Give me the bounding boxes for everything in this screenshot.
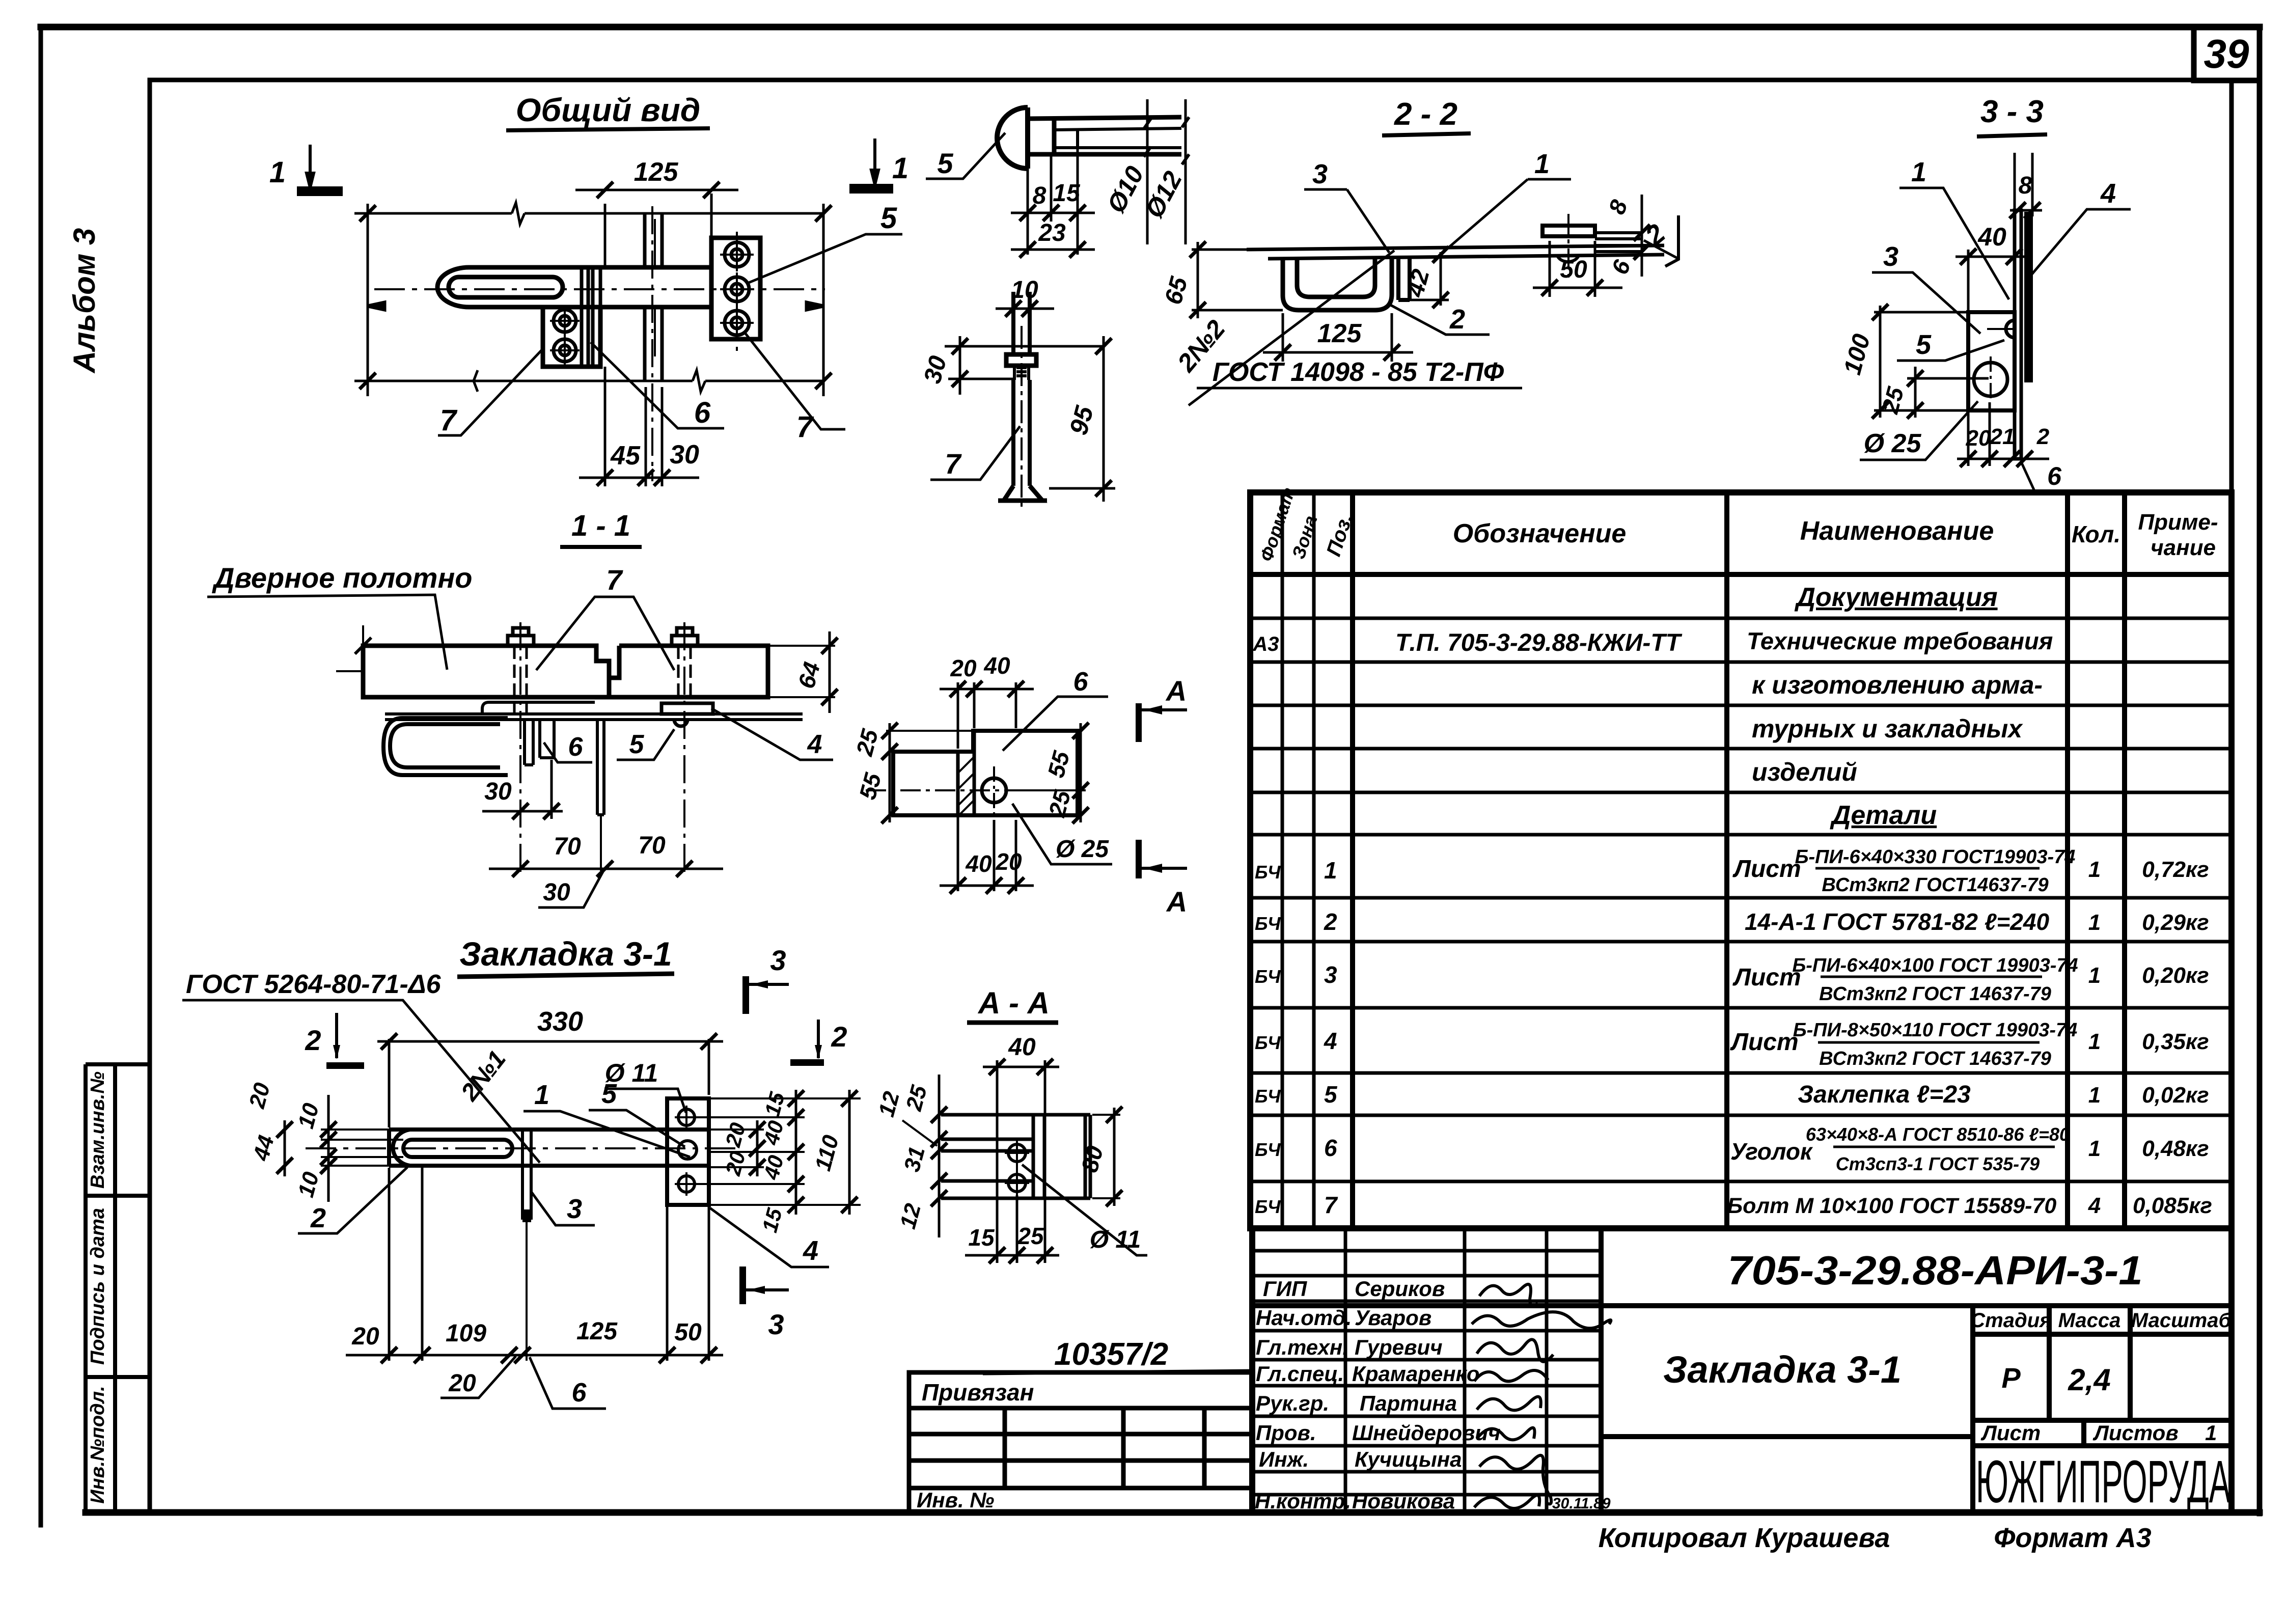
svg-text:Гл.техн.: Гл.техн. xyxy=(1256,1335,1348,1359)
angle outline xyxy=(893,731,1078,815)
svg-text:Детали: Детали xyxy=(1830,801,1937,830)
svg-text:2: 2 xyxy=(310,1203,326,1233)
svg-text:20: 20 xyxy=(1966,426,1991,451)
svg-text:7: 7 xyxy=(440,404,458,437)
svg-text:40: 40 xyxy=(1008,1034,1036,1061)
leader 7 left xyxy=(438,349,543,435)
label d11 xyxy=(604,1089,686,1113)
svg-text:63×40×8-А ГОСТ 8510-86 ℓ=80: 63×40×8-А ГОСТ 8510-86 ℓ=80 xyxy=(1806,1124,2070,1145)
svg-text:40: 40 xyxy=(1977,223,2006,251)
svg-text:6: 6 xyxy=(1073,667,1089,697)
angle leg cut xyxy=(956,752,960,815)
label 4 xyxy=(710,1208,829,1267)
dim 50 washer xyxy=(1533,241,1622,297)
svg-text:5: 5 xyxy=(601,1079,617,1109)
svg-text:10: 10 xyxy=(1011,277,1038,304)
rivet head item 5 xyxy=(2006,320,2015,338)
main bar (item 1) xyxy=(584,267,711,307)
svg-text:А - А: А - А xyxy=(977,986,1050,1020)
rivet head bump xyxy=(674,720,687,726)
section mark 3 top xyxy=(742,976,749,1014)
svg-text:2: 2 xyxy=(1449,304,1465,335)
svg-text:Обозначение: Обозначение xyxy=(1453,519,1627,548)
label 6 xyxy=(544,742,592,762)
label 1 xyxy=(1899,188,2009,299)
svg-text:3: 3 xyxy=(768,1308,784,1340)
svg-text:Сериков: Сериков xyxy=(1355,1277,1445,1301)
svg-text:Общий вид: Общий вид xyxy=(516,92,701,128)
svg-text:Технические требования: Технические требования xyxy=(1747,627,2053,654)
section arrow A lower xyxy=(1136,840,1142,878)
svg-text:Крамаренко: Крамаренко xyxy=(1352,1362,1480,1386)
svg-text:15: 15 xyxy=(968,1224,995,1251)
dim d10 xyxy=(1144,99,1151,244)
section arrow A upper xyxy=(1136,703,1142,742)
svg-text:3: 3 xyxy=(567,1194,582,1224)
dim 65 xyxy=(1190,241,1283,318)
dim 125 bottom xyxy=(1263,313,1413,362)
door frame centerline xyxy=(651,206,653,481)
svg-text:А3: А3 xyxy=(1252,633,1279,655)
bolt centerline xyxy=(1021,326,1023,509)
section mark 3 bottom xyxy=(739,1267,746,1304)
svg-text:2,4: 2,4 xyxy=(2068,1363,2110,1397)
leader 6 bottom xyxy=(2021,461,2076,492)
svg-text:БЧ: БЧ xyxy=(1255,913,1281,934)
svg-text:ВСт3кп2 ГОСТ 14637-79: ВСт3кп2 ГОСТ 14637-79 xyxy=(1819,1048,2051,1069)
bar centerline xyxy=(306,1147,736,1149)
left dims xyxy=(321,1130,403,1166)
svg-text:5: 5 xyxy=(937,147,953,179)
section mark 2 right xyxy=(817,1020,820,1058)
svg-text:Закладка 3-1: Закладка 3-1 xyxy=(1663,1348,1902,1391)
dim 23 xyxy=(1011,241,1095,258)
dim 30 lower leader xyxy=(538,870,604,907)
svg-text:125: 125 xyxy=(576,1318,618,1345)
dim 8 top xyxy=(2009,153,2042,218)
svg-text:2: 2 xyxy=(305,1024,321,1056)
svg-text:50: 50 xyxy=(1560,256,1587,283)
left leaf left end ext xyxy=(362,625,364,646)
svg-text:Ø 11: Ø 11 xyxy=(1090,1226,1141,1253)
svg-text:5: 5 xyxy=(629,730,645,759)
svg-text:Подпись и дата: Подпись и дата xyxy=(87,1208,108,1365)
label 7 with two leaders xyxy=(536,597,674,670)
plate 4 under right leaf xyxy=(662,703,713,714)
countersunk foot xyxy=(1004,486,1042,501)
svg-text:1: 1 xyxy=(1534,149,1550,179)
plate holes xyxy=(675,1106,698,1196)
svg-text:4: 4 xyxy=(1324,1028,1337,1054)
rivet on plate xyxy=(1543,226,1595,236)
svg-text:Взам.инв.№: Взам.инв.№ xyxy=(87,1071,108,1189)
svg-text:8: 8 xyxy=(1033,182,1046,209)
svg-text:14-А-1 ГОСТ 5781-82 ℓ=240: 14-А-1 ГОСТ 5781-82 ℓ=240 xyxy=(1745,909,2050,935)
strap item 3 xyxy=(1398,259,1410,300)
privyazan box xyxy=(909,1372,1252,1512)
svg-text:Лист: Лист xyxy=(1980,1421,2041,1445)
svg-text:БЧ: БЧ xyxy=(1255,1139,1281,1160)
angle edge view (item 6) xyxy=(582,267,600,367)
bolt top right plate xyxy=(720,238,754,271)
svg-text:39: 39 xyxy=(2204,31,2249,76)
dim 80 xyxy=(1092,1107,1122,1206)
svg-text:1: 1 xyxy=(2088,1029,2101,1054)
label 5 xyxy=(617,729,674,760)
svg-text:БЧ: БЧ xyxy=(1255,1196,1281,1217)
channel (rod loop side view) xyxy=(1283,259,1392,310)
svg-text:0,72кг: 0,72кг xyxy=(2142,857,2209,882)
svg-text:БЧ: БЧ xyxy=(1255,1086,1281,1107)
svg-text:2: 2 xyxy=(1324,909,1337,935)
label d25 xyxy=(1860,401,1978,460)
svg-text:Ст3сп3-1 ГОСТ 535-79: Ст3сп3-1 ГОСТ 535-79 xyxy=(1836,1153,2040,1174)
svg-text:Шнейдерович: Шнейдерович xyxy=(1352,1421,1501,1445)
centerline xyxy=(374,288,825,290)
left door leaf xyxy=(363,646,609,697)
bolt top-left plate xyxy=(550,306,580,336)
bottom dims xyxy=(346,1168,723,1363)
svg-text:7: 7 xyxy=(1324,1192,1338,1218)
svg-text:1: 1 xyxy=(2088,857,2101,882)
svg-text:БЧ: БЧ xyxy=(1255,862,1281,883)
svg-text:7: 7 xyxy=(945,448,962,480)
svg-text:Рук.гр.: Рук.гр. xyxy=(1256,1391,1329,1415)
20 lower leader xyxy=(440,1356,516,1398)
svg-text:Нач.отд.: Нач.отд. xyxy=(1256,1306,1352,1330)
svg-text:Б-ПИ-6×40×100 ГОСТ 19903-74: Б-ПИ-6×40×100 ГОСТ 19903-74 xyxy=(1792,955,2078,976)
svg-text:1: 1 xyxy=(2088,1083,2101,1108)
svg-text:Пров.: Пров. xyxy=(1256,1421,1316,1445)
door frame vertical xyxy=(645,213,662,381)
svg-text:20: 20 xyxy=(950,655,977,681)
svg-text:к изготовлению арма-: к изготовлению арма- xyxy=(1752,671,2043,699)
svg-text:21: 21 xyxy=(1990,424,2015,449)
right dims xyxy=(697,1098,861,1205)
svg-text:1: 1 xyxy=(2088,910,2101,935)
dim 8/6 right end xyxy=(1634,195,1650,277)
svg-text:70: 70 xyxy=(554,833,581,860)
svg-text:Листов: Листов xyxy=(2092,1421,2179,1445)
label d11 xyxy=(1022,1165,1147,1255)
hole xyxy=(982,778,1006,803)
label 6 xyxy=(1003,697,1108,751)
rivet shank xyxy=(1054,128,1181,148)
svg-text:5: 5 xyxy=(1324,1081,1338,1108)
svg-text:5: 5 xyxy=(880,202,897,235)
label 2 channel xyxy=(1388,304,1490,335)
svg-text:ГОСТ 14098 - 85 Т2-ПФ: ГОСТ 14098 - 85 Т2-ПФ xyxy=(1213,357,1504,387)
svg-text:30: 30 xyxy=(484,778,512,805)
label 2 xyxy=(298,1167,407,1233)
svg-text:20: 20 xyxy=(448,1370,476,1397)
svg-text:Инж.: Инж. xyxy=(1259,1447,1309,1471)
svg-text:0,20кг: 0,20кг xyxy=(2142,963,2209,988)
svg-text:1: 1 xyxy=(534,1080,549,1110)
bar end view item 1 xyxy=(2015,210,2021,459)
bottom dims 15 25 xyxy=(965,1195,1059,1263)
section mark 1 right xyxy=(851,139,892,192)
label 4 xyxy=(2030,209,2131,276)
svg-text:Масса: Масса xyxy=(2058,1309,2121,1332)
right plate (item 4) xyxy=(711,238,760,339)
bolt 2 shank dashed xyxy=(678,646,691,703)
svg-text:1: 1 xyxy=(2088,963,2101,988)
svg-text:40: 40 xyxy=(965,850,992,877)
svg-text:Партина: Партина xyxy=(1360,1391,1457,1415)
svg-text:7: 7 xyxy=(796,410,814,444)
svg-text:Б-ПИ-6×40×330 ГОСТ19903-74: Б-ПИ-6×40×330 ГОСТ19903-74 xyxy=(1795,846,2076,868)
svg-text:109: 109 xyxy=(446,1320,486,1347)
rivet collar xyxy=(1028,117,1181,154)
ticks on walls xyxy=(360,205,832,389)
top plate side view xyxy=(1247,245,1664,259)
page number box 39 xyxy=(2194,27,2260,80)
svg-text:Формат А3: Формат А3 xyxy=(1994,1523,2151,1553)
label 3 xyxy=(1872,272,1980,334)
svg-text:А: А xyxy=(1166,886,1187,918)
left plate (item 3) xyxy=(543,307,600,367)
svg-text:Стадия: Стадия xyxy=(1970,1309,2051,1332)
svg-text:0,02кг: 0,02кг xyxy=(2142,1083,2209,1108)
svg-text:6: 6 xyxy=(568,732,584,762)
svg-text:2: 2 xyxy=(831,1021,847,1053)
dim 40 xyxy=(1956,249,2024,312)
svg-text:Лист: Лист xyxy=(1732,856,1801,883)
svg-text:50: 50 xyxy=(674,1319,702,1346)
rod loop item 2 xyxy=(393,1130,512,1166)
svg-text:20: 20 xyxy=(351,1323,379,1350)
svg-text:6: 6 xyxy=(572,1378,587,1408)
bolt shaft top xyxy=(1013,292,1030,354)
section mark 2 right xyxy=(1665,215,1678,266)
rod loop below xyxy=(383,718,508,775)
svg-text:Кучицына: Кучицына xyxy=(1355,1447,1462,1471)
svg-text:1: 1 xyxy=(269,156,286,189)
svg-text:Б-ПИ-8×50×110 ГОСТ 19903-74: Б-ПИ-8×50×110 ГОСТ 19903-74 xyxy=(1793,1020,2078,1041)
left dims xyxy=(931,1075,947,1237)
svg-text:Документация: Документация xyxy=(1794,583,1997,612)
plate item 3 xyxy=(1968,312,2015,410)
dim 125 top xyxy=(575,182,738,268)
svg-text:10357/2: 10357/2 xyxy=(1054,1337,1168,1372)
label 1 xyxy=(1446,179,1528,250)
rivet middle (item 5) xyxy=(720,272,754,306)
svg-text:1 - 1: 1 - 1 xyxy=(571,509,630,542)
svg-text:0,29кг: 0,29кг xyxy=(2142,910,2209,935)
long plate edge xyxy=(385,714,803,720)
svg-text:Наименование: Наименование xyxy=(1800,516,1994,546)
label 3 xyxy=(1347,189,1389,253)
svg-text:А: А xyxy=(1165,675,1187,707)
svg-text:Приме-: Приме- xyxy=(2138,510,2218,535)
svg-text:30: 30 xyxy=(670,440,699,470)
svg-text:Инв.№подл.: Инв.№подл. xyxy=(87,1386,108,1503)
part outline xyxy=(941,1115,1090,1198)
label 3 xyxy=(531,1192,595,1225)
svg-text:ВСт3кп2 ГОСТ 14637-79: ВСт3кп2 ГОСТ 14637-79 xyxy=(1819,983,2051,1005)
svg-text:Ø 25: Ø 25 xyxy=(1056,836,1109,863)
weld designation xyxy=(1189,251,1394,405)
svg-text:Т.П. 705-3-29.88-КЖИ-ТТ: Т.П. 705-3-29.88-КЖИ-ТТ xyxy=(1395,629,1683,656)
left extension line xyxy=(367,204,369,396)
label 4 xyxy=(711,708,833,760)
label d25 xyxy=(1012,804,1112,864)
svg-text:Лист: Лист xyxy=(1730,1029,1799,1056)
hole d25 xyxy=(1974,363,2007,396)
svg-text:БЧ: БЧ xyxy=(1255,1032,1281,1053)
svg-text:Кол.: Кол. xyxy=(2072,521,2120,547)
svg-text:Альбом 3: Альбом 3 xyxy=(67,228,101,374)
svg-text:Уголок: Уголок xyxy=(1730,1138,1813,1165)
svg-text:Масштаб: Масштаб xyxy=(2131,1309,2232,1332)
svg-text:1: 1 xyxy=(2205,1421,2217,1445)
rod end lines right xyxy=(1595,233,1642,252)
bolt shaft bottom xyxy=(1013,380,1030,486)
leader 5 xyxy=(926,133,1005,179)
strap item 3 xyxy=(597,720,604,815)
bolt bottom-left plate xyxy=(550,336,580,365)
svg-text:Гл.спец.: Гл.спец. xyxy=(1256,1362,1344,1386)
dim 8 / 15 xyxy=(1011,148,1095,255)
svg-text:Ø 25: Ø 25 xyxy=(1864,429,1922,458)
svg-text:Закладка 3-1: Закладка 3-1 xyxy=(459,935,672,973)
label 1 xyxy=(524,1111,690,1157)
leader 7 right xyxy=(743,331,845,429)
wall bottom edge xyxy=(354,370,823,392)
right door leaf xyxy=(609,646,768,697)
bar left end under leaf xyxy=(482,702,595,714)
svg-text:6: 6 xyxy=(2047,462,2062,490)
dim 95 right xyxy=(1049,336,1115,502)
svg-text:Р: Р xyxy=(2001,1362,2021,1394)
hatch xyxy=(959,758,973,815)
label 5 xyxy=(1897,340,2004,361)
dim 100 xyxy=(1872,304,1967,419)
svg-text:23: 23 xyxy=(1038,219,1066,246)
svg-text:125: 125 xyxy=(1317,319,1362,348)
section mark 1 left xyxy=(298,145,341,195)
svg-text:25: 25 xyxy=(1017,1223,1044,1249)
dim 25 xyxy=(1907,367,1989,419)
svg-text:4: 4 xyxy=(2100,178,2116,209)
svg-text:705-3-29.88-АРИ-3-1: 705-3-29.88-АРИ-3-1 xyxy=(1728,1248,2143,1293)
svg-text:5: 5 xyxy=(1916,329,1932,360)
bolt 1 head xyxy=(508,636,534,646)
svg-text:1: 1 xyxy=(892,152,908,185)
svg-text:2: 2 xyxy=(2036,424,2050,449)
svg-text:45: 45 xyxy=(610,441,641,471)
wall top edge xyxy=(354,203,823,396)
plate 4 xyxy=(667,1098,709,1205)
right extension line xyxy=(822,204,825,396)
svg-text:330: 330 xyxy=(537,1006,583,1037)
dim 42 xyxy=(1410,246,1449,308)
svg-text:Болт М 10×100 ГОСТ 15589-70: Болт М 10×100 ГОСТ 15589-70 xyxy=(1727,1194,2057,1218)
rod loop (item 2) xyxy=(437,267,584,307)
svg-text:Копировал Курашева: Копировал Курашева xyxy=(1599,1523,1890,1553)
dim 10 top xyxy=(996,300,1054,317)
strap item 3 xyxy=(522,1130,531,1220)
svg-text:30: 30 xyxy=(543,879,570,906)
svg-text:8: 8 xyxy=(2019,172,2032,199)
dim d12 xyxy=(1182,99,1189,244)
dim 40 20 bottom xyxy=(940,817,1034,894)
svg-text:ГИП: ГИП xyxy=(1263,1277,1307,1301)
main bar item 1 xyxy=(389,1130,709,1166)
svg-text:Инв. №: Инв. № xyxy=(917,1488,994,1512)
dim 30 left xyxy=(945,336,1103,395)
svg-text:4: 4 xyxy=(2088,1193,2101,1218)
fraction lines in table xyxy=(1815,868,2055,1147)
svg-text:70: 70 xyxy=(638,832,666,859)
svg-text:ГОСТ 5264-80-71-Δ6: ГОСТ 5264-80-71-Δ6 xyxy=(186,970,442,999)
dim 20 40 top xyxy=(940,681,1034,749)
svg-text:Заклепка ℓ=23: Заклепка ℓ=23 xyxy=(1798,1081,1971,1108)
leader 6 xyxy=(591,342,724,428)
dim 40 xyxy=(983,1059,1059,1263)
svg-text:Гуревич: Гуревич xyxy=(1355,1335,1443,1359)
signatures xyxy=(1472,1284,1611,1508)
bolt plate vertical centerline xyxy=(736,232,738,356)
svg-text:чание: чание xyxy=(2151,535,2216,560)
svg-text:4: 4 xyxy=(803,1235,818,1266)
section mark 2 left xyxy=(335,1013,338,1058)
svg-text:ЮЖГИПРОРУДА: ЮЖГИПРОРУДА xyxy=(1976,1448,2230,1516)
svg-text:125: 125 xyxy=(634,157,679,187)
svg-text:Н.контр.: Н.контр. xyxy=(1255,1489,1351,1513)
svg-text:4: 4 xyxy=(807,730,822,759)
svg-text:3: 3 xyxy=(770,944,786,976)
svg-text:0,35кг: 0,35кг xyxy=(2142,1029,2209,1054)
svg-text:3: 3 xyxy=(1312,159,1328,189)
bolt collar xyxy=(1006,354,1036,366)
rivet head xyxy=(997,107,1028,169)
svg-text:40: 40 xyxy=(983,652,1010,679)
plate item 4 cut xyxy=(2025,212,2032,382)
dim 30 left xyxy=(482,760,563,819)
dim 330 xyxy=(377,1033,723,1127)
dim 55 25 right xyxy=(1006,723,1089,823)
label 5 xyxy=(589,1110,685,1147)
svg-text:турных и закладных: турных и закладных xyxy=(1752,714,2023,743)
svg-text:0,085кг: 0,085кг xyxy=(2133,1193,2212,1218)
svg-text:БЧ: БЧ xyxy=(1255,966,1281,987)
leader 5 xyxy=(748,234,902,283)
bottom dims 20 21 2 xyxy=(1957,402,2049,467)
angle legs xyxy=(525,720,554,765)
holes xyxy=(1005,1141,1029,1195)
svg-text:6: 6 xyxy=(1324,1135,1337,1161)
svg-text:15: 15 xyxy=(1053,180,1081,207)
svg-text:20: 20 xyxy=(995,848,1022,875)
dim 25 55 left xyxy=(882,723,975,823)
svg-text:7: 7 xyxy=(606,564,623,596)
svg-text:3: 3 xyxy=(1324,961,1337,988)
svg-text:Уваров: Уваров xyxy=(1355,1306,1431,1330)
svg-text:Дверное полотно: Дверное полотно xyxy=(212,562,473,594)
svg-text:Привязан: Привязан xyxy=(922,1379,1034,1406)
svg-text:2 - 2: 2 - 2 xyxy=(1394,97,1457,132)
svg-text:Лист: Лист xyxy=(1732,964,1801,991)
dim 45 / 30 bottom xyxy=(579,367,699,486)
svg-text:3: 3 xyxy=(1883,241,1898,272)
bolt bottom right plate xyxy=(720,306,754,340)
svg-text:0,48кг: 0,48кг xyxy=(2142,1136,2209,1161)
svg-text:ВСт3кп2 ГОСТ14637-79: ВСт3кп2 ГОСТ14637-79 xyxy=(1822,874,2048,896)
bolt 1 shank dashed xyxy=(514,646,527,717)
outer sheet border xyxy=(41,24,2260,31)
